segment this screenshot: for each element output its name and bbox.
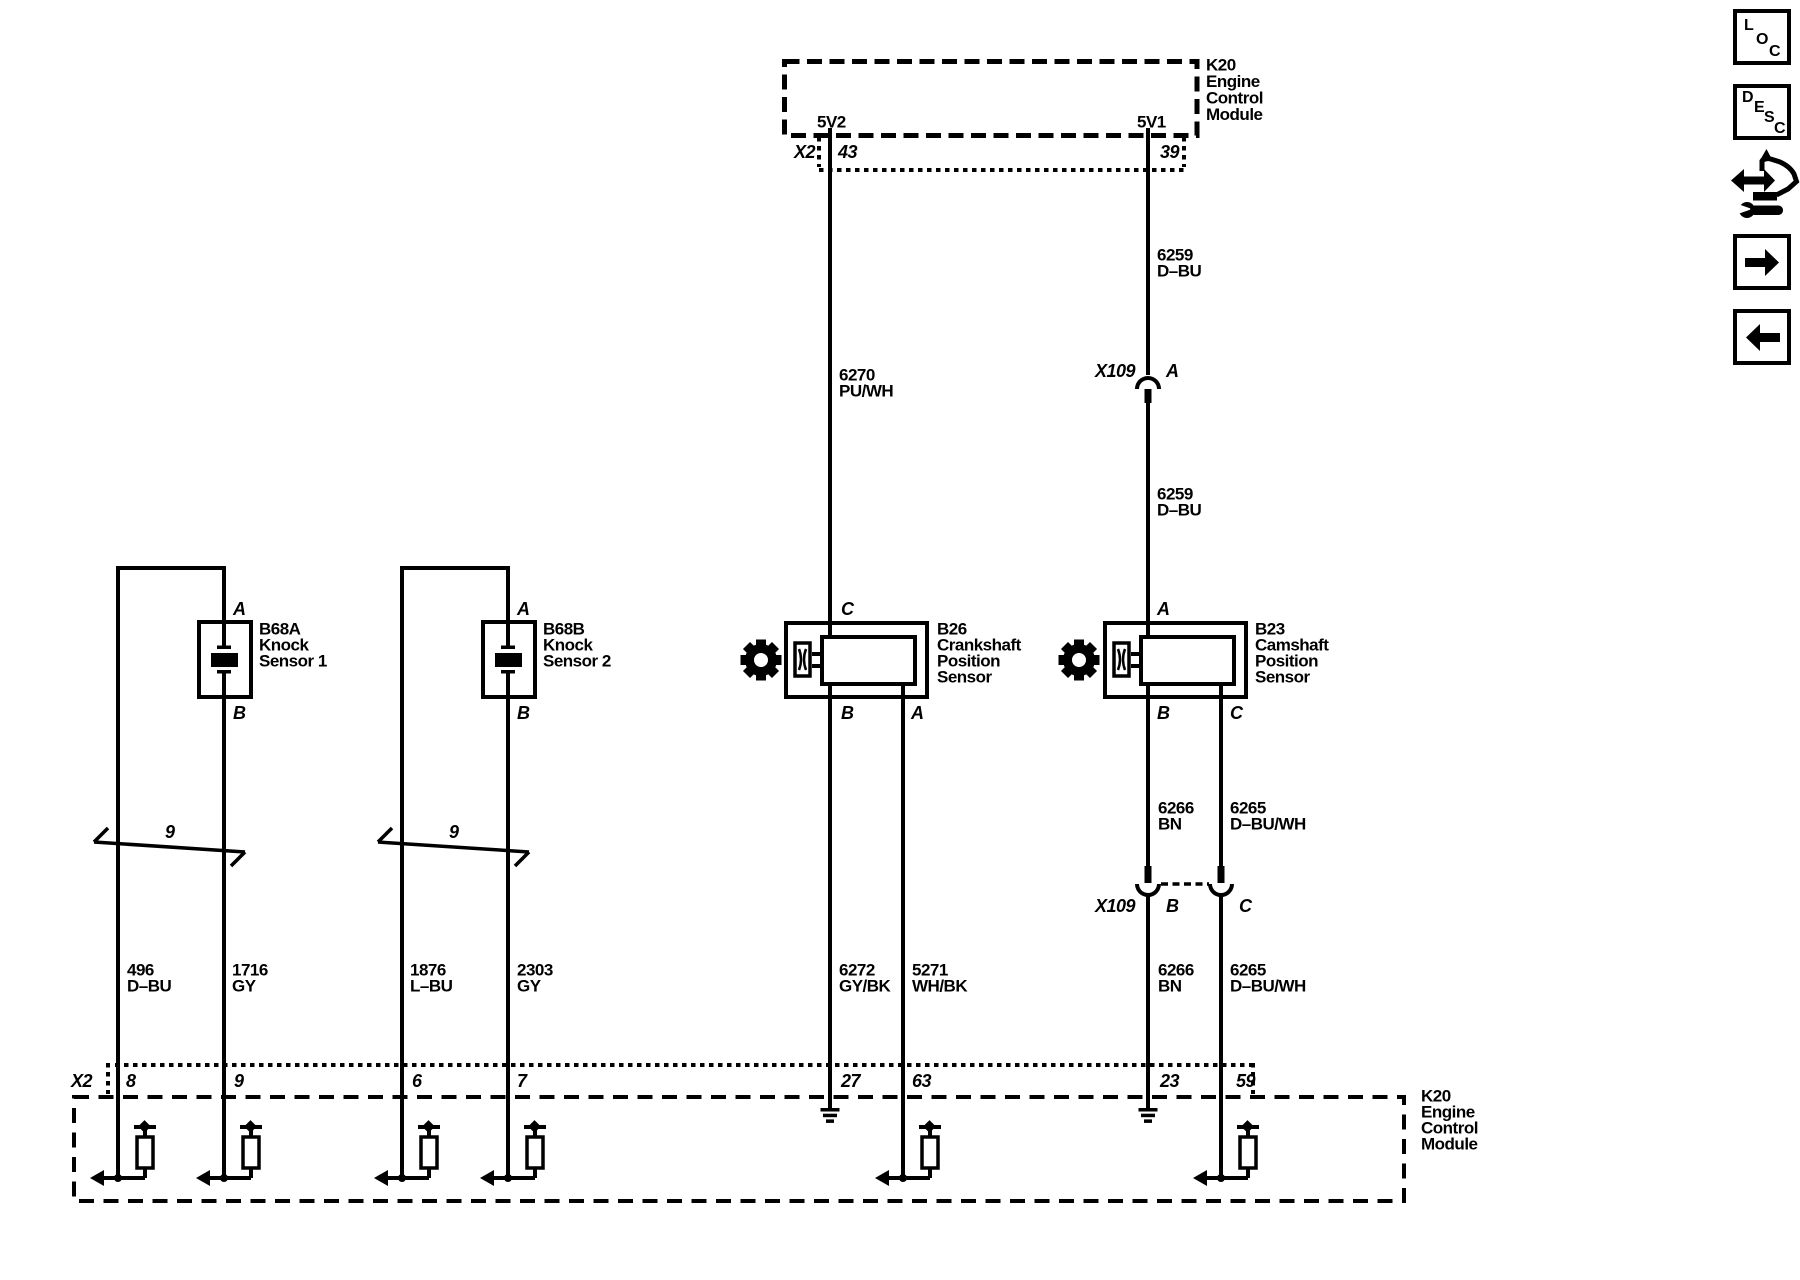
svg-text:GY/BK: GY/BK [839, 977, 892, 996]
svg-text:A: A [1156, 599, 1170, 619]
svg-text:D–BU: D–BU [1157, 262, 1202, 281]
wire knock sensor 1 low (B68A pin B to pin 9) [222, 672, 226, 1178]
crankshaft position sensor B26 [786, 623, 927, 697]
svg-text:D–BU/WH: D–BU/WH [1230, 977, 1306, 996]
svg-text:C: C [1774, 120, 1786, 137]
wire 6265 D-BU/WH (X109 C to pin 59) [1219, 895, 1223, 1178]
svg-text:PU/WH: PU/WH [839, 382, 893, 401]
diagnostic tools icon (arrows and wrench) [1731, 149, 1797, 218]
svg-text:Sensor 1: Sensor 1 [259, 652, 327, 671]
svg-text:GY: GY [232, 977, 257, 996]
svg-text:9: 9 [234, 1071, 244, 1091]
svg-text:C: C [1239, 896, 1253, 916]
wire 6259 D-BU (X109 A to cam sensor A) [1146, 403, 1150, 635]
LOC nav box [1735, 11, 1789, 63]
connector X2 strip (top) [817, 137, 821, 167]
K20 Engine Control Module box (top) [785, 62, 1198, 136]
svg-text:X109: X109 [1094, 896, 1136, 916]
svg-text:23: 23 [1159, 1071, 1180, 1091]
wire 6272 GY/BK (crank sensor B to pin 27) [828, 686, 832, 1109]
ECM internal resistor and exit arrow (pin 63) [875, 1120, 941, 1186]
connector X2 strip (bottom) [106, 1063, 110, 1094]
svg-text:BN: BN [1158, 815, 1182, 834]
knock sensor B68A [199, 622, 251, 697]
svg-text:Sensor: Sensor [1255, 668, 1311, 687]
svg-text:9: 9 [165, 822, 175, 842]
svg-text:Module: Module [1206, 105, 1263, 124]
ground symbol (pin 27) [821, 1108, 840, 1123]
svg-text:C: C [1230, 703, 1244, 723]
svg-text:6: 6 [412, 1071, 423, 1091]
wire knock sensor 2 low (B68B pin B to pin 7) [506, 672, 510, 1178]
svg-text:59: 59 [1236, 1071, 1256, 1091]
svg-text:B: B [1166, 896, 1179, 916]
svg-text:43: 43 [837, 142, 858, 162]
ECM internal resistor and exit arrow (pin 7) [480, 1120, 546, 1186]
svg-text:X2: X2 [70, 1071, 93, 1091]
wire 5271 WH/BK (crank sensor A to pin 63) [901, 686, 905, 1178]
svg-text:D–BU/WH: D–BU/WH [1230, 815, 1306, 834]
ECM internal resistor and exit arrow (pin 9) [196, 1120, 262, 1186]
svg-text:A: A [516, 599, 530, 619]
svg-text:B: B [841, 703, 854, 723]
K20 Engine Control Module box (bottom) [74, 1097, 1404, 1201]
svg-text:63: 63 [912, 1071, 932, 1091]
wire 6259 D-BU (pin 39 to X109 A) [1146, 128, 1150, 375]
svg-text:5V1: 5V1 [1137, 113, 1166, 132]
inline connector X109 pin B [1145, 866, 1152, 883]
back arrow nav box [1735, 311, 1789, 363]
svg-text:L: L [1744, 17, 1754, 34]
svg-text:B: B [1157, 703, 1170, 723]
svg-text:B: B [233, 703, 246, 723]
svg-text:O: O [1756, 31, 1768, 48]
svg-text:Sensor 2: Sensor 2 [543, 652, 611, 671]
ECM internal resistor and exit arrow (pin 59) [1193, 1120, 1259, 1186]
wire 6266 BN (cam sensor B to X109 B) [1146, 686, 1150, 868]
svg-text:L–BU: L–BU [410, 977, 453, 996]
svg-text:Module: Module [1421, 1135, 1478, 1154]
DESC nav box [1735, 86, 1789, 138]
bundle of 9 wires marker (knock sensor 2) [378, 828, 529, 866]
svg-text:Sensor: Sensor [937, 668, 993, 687]
svg-text:9: 9 [449, 822, 459, 842]
camshaft position sensor B23 [1105, 623, 1246, 697]
bundle of 9 wires marker (knock sensor 1) [94, 828, 245, 866]
svg-text:C: C [1769, 43, 1781, 60]
svg-text:D: D [1742, 89, 1753, 106]
svg-text:D–BU: D–BU [1157, 501, 1202, 520]
svg-text:X109: X109 [1094, 361, 1136, 381]
svg-text:WH/BK: WH/BK [912, 977, 968, 996]
wire 6266 BN (X109 B to pin 23) [1146, 895, 1150, 1109]
inline connector X109 pin C [1218, 866, 1225, 883]
ECM internal resistor and exit arrow (pin 8) [90, 1120, 156, 1186]
wire 6265 D-BU/WH (cam sensor C to X109 C) [1219, 686, 1223, 868]
svg-text:BN: BN [1158, 977, 1182, 996]
ECM internal resistor and exit arrow (pin 6) [374, 1120, 440, 1186]
knock sensor B68B [483, 622, 535, 697]
svg-text:A: A [232, 599, 246, 619]
svg-text:8: 8 [126, 1071, 136, 1091]
svg-text:A: A [1165, 361, 1179, 381]
svg-text:B: B [517, 703, 530, 723]
svg-text:D–BU: D–BU [127, 977, 172, 996]
svg-text:C: C [841, 599, 855, 619]
svg-text:GY: GY [517, 977, 542, 996]
svg-text:A: A [910, 703, 924, 723]
wire 6270 PU/WH (pin 43 to crank sensor C) [828, 128, 832, 635]
svg-text:7: 7 [517, 1071, 528, 1091]
crankshaft sensor drive gear icon [741, 640, 782, 681]
camshaft sensor drive gear icon [1059, 640, 1100, 681]
wire knock sensor 1 signal loop (pin 8 to B68A pin A) [116, 566, 120, 1178]
svg-text:27: 27 [840, 1071, 862, 1091]
inline connector X109 pin A [1137, 378, 1159, 389]
forward arrow nav box [1735, 236, 1789, 288]
wire knock sensor 2 signal loop (pin 6 to B68B pin A) [400, 566, 404, 1178]
connector X109 B-C jumper [1161, 882, 1209, 886]
svg-text:X2: X2 [793, 142, 816, 162]
svg-text:39: 39 [1160, 142, 1180, 162]
ground symbol (pin 23) [1139, 1108, 1158, 1123]
